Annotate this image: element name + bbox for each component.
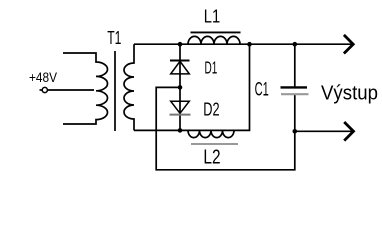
- wire bottom rail and vertical to top rail: [134, 44, 250, 130]
- terminal +48V tick: [40, 89, 43, 91]
- junction node bottom rail at D2: [178, 128, 183, 133]
- svg-text:Výstup: Výstup: [321, 83, 378, 105]
- junction node top rail at D1: [178, 42, 183, 47]
- svg-text:D2: D2: [203, 99, 219, 120]
- transformer T1 secondary winding: [124, 44, 134, 130]
- inductor L2 winding: [188, 130, 234, 137]
- arrowhead output minus: [344, 122, 353, 141]
- inductor L1 winding: [188, 36, 240, 44]
- junction node between D1 and D2: [178, 85, 183, 90]
- wire top rail: [134, 43, 353, 45]
- capacitor C1 bottom plate: [281, 93, 309, 95]
- diode D2 triangle: [171, 101, 190, 113]
- wire center tap: [47, 89, 94, 91]
- transformer T1 core: [114, 51, 116, 131]
- inductor L1 core: [191, 31, 241, 33]
- diode D1 triangle: [171, 61, 190, 74]
- terminal +48V circle: [42, 87, 47, 92]
- junction node top rail at C1: [293, 42, 298, 47]
- transformer T1 primary winding: [63, 53, 108, 124]
- svg-text:T1: T1: [107, 28, 121, 48]
- svg-text:+48V: +48V: [29, 69, 58, 85]
- diode D2 cathode bar: [170, 114, 191, 116]
- wire capacitor top: [294, 44, 296, 86]
- svg-text:L2: L2: [203, 146, 220, 169]
- capacitor C1 top plate: [281, 86, 308, 88]
- (part of top rail) arrowhead: [344, 35, 353, 54]
- wire diode branch: [179, 44, 181, 130]
- inductor L2 core: [191, 143, 238, 145]
- wire output minus arrow line: [295, 130, 354, 132]
- svg-text:D1: D1: [205, 58, 218, 78]
- diode D1 cathode bar: [170, 60, 190, 62]
- wire return from diode junction: [156, 87, 295, 169]
- junction node top rail at L2 riser: [247, 42, 252, 47]
- junction node output minus: [293, 129, 298, 134]
- svg-text:L1: L1: [204, 6, 220, 27]
- svg-text:C1: C1: [255, 79, 269, 101]
